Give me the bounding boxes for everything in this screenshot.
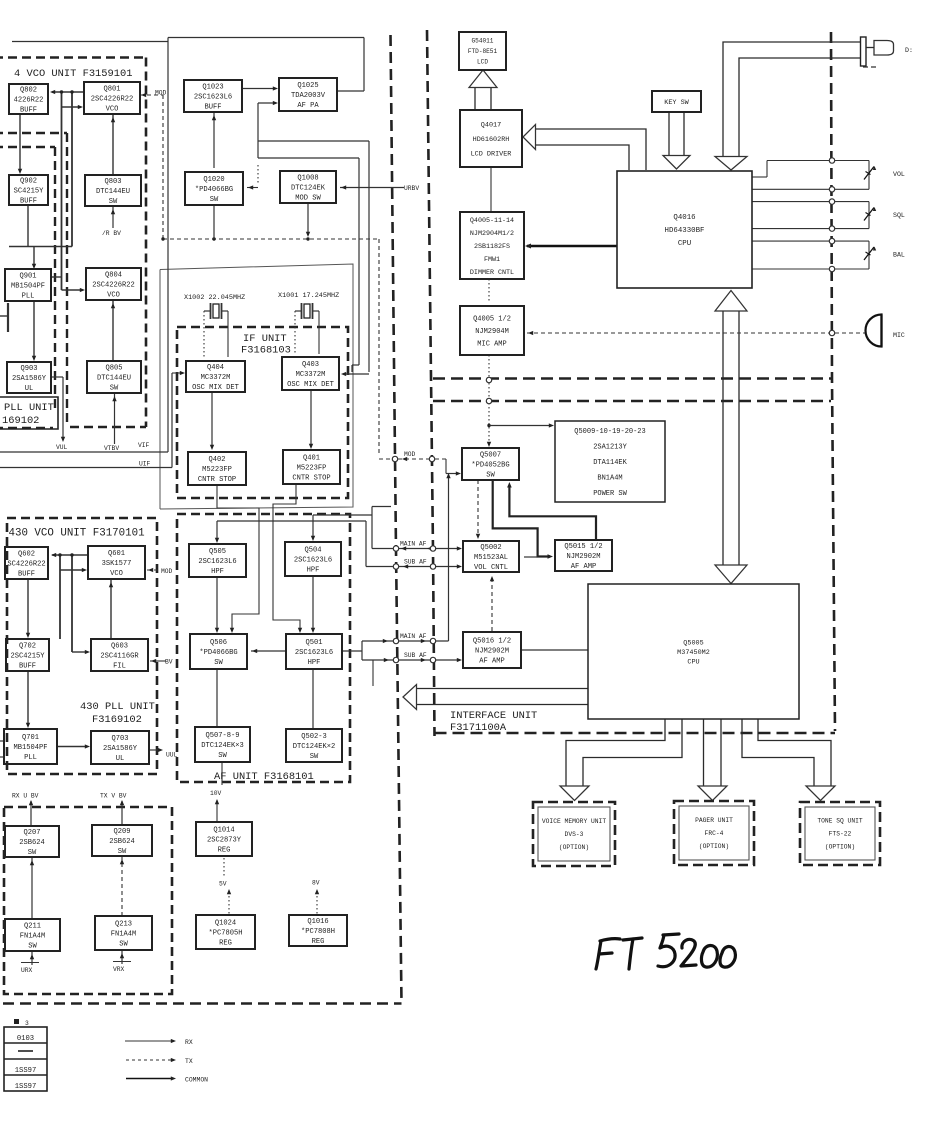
svg-text:2SC2873Y: 2SC2873Y: [207, 836, 242, 844]
svg-text:2SC4116GR: 2SC4116GR: [100, 652, 139, 660]
svg-text:FTD-8E51: FTD-8E51: [468, 48, 498, 55]
svg-text:Q802: Q802: [20, 86, 37, 94]
svg-text:Q504: Q504: [304, 546, 321, 554]
svg-text:FMW1: FMW1: [484, 256, 500, 264]
svg-text:VRX: VRX: [113, 966, 125, 973]
svg-text:Q5005: Q5005: [683, 639, 703, 647]
svg-text:Q505: Q505: [209, 548, 226, 556]
svg-text:2SB624: 2SB624: [19, 839, 45, 847]
svg-text:Q502-3: Q502-3: [301, 733, 327, 741]
svg-text:MOD: MOD: [155, 90, 167, 97]
svg-text:*PD4066BG: *PD4066BG: [195, 186, 233, 194]
svg-text:VCO: VCO: [107, 292, 120, 300]
svg-text:Q901: Q901: [19, 272, 36, 280]
svg-text:F3169102: F3169102: [92, 714, 142, 726]
svg-text:VOL CNTL: VOL CNTL: [474, 564, 508, 572]
svg-text:MC3372M: MC3372M: [296, 371, 326, 379]
svg-text:SC4226R22: SC4226R22: [7, 560, 45, 568]
svg-text:FRC-4: FRC-4: [705, 830, 724, 837]
svg-text:Q1020: Q1020: [203, 176, 224, 184]
svg-text:URBV: URBV: [404, 185, 419, 192]
svg-text:3SK1577: 3SK1577: [102, 560, 132, 568]
svg-text:Q507-8-9: Q507-8-9: [205, 732, 239, 740]
svg-text:UUL: UUL: [166, 752, 178, 759]
svg-text:KEY SW: KEY SW: [664, 99, 689, 107]
svg-text:SW: SW: [310, 753, 319, 761]
svg-text:D:: D:: [905, 47, 913, 54]
svg-text:Q5007: Q5007: [480, 451, 501, 459]
svg-text:M37450M2: M37450M2: [677, 649, 710, 657]
svg-text:RX: RX: [185, 1039, 193, 1046]
svg-text:BN1A4M: BN1A4M: [597, 474, 622, 482]
svg-text:2SC4226R22: 2SC4226R22: [92, 281, 135, 289]
svg-text:4 VCO UNIT F3159101: 4 VCO UNIT F3159101: [14, 68, 132, 80]
svg-text:UL: UL: [116, 755, 125, 763]
svg-text:SC4215Y: SC4215Y: [14, 187, 45, 195]
svg-text:SW: SW: [110, 385, 119, 393]
svg-text:OSC MIX DET: OSC MIX DET: [287, 381, 334, 389]
svg-text:DVS-3: DVS-3: [565, 831, 584, 838]
svg-text:DTC144EU: DTC144EU: [97, 374, 131, 382]
svg-text:Q903: Q903: [20, 365, 37, 373]
svg-text:FN1A4M: FN1A4M: [111, 930, 137, 938]
svg-text:(OPTION): (OPTION): [559, 844, 589, 851]
svg-text:FIL: FIL: [113, 663, 126, 671]
svg-text:2SC1623L6: 2SC1623L6: [294, 556, 332, 564]
svg-text:MIC: MIC: [893, 332, 905, 339]
svg-text:BUFF: BUFF: [18, 571, 35, 579]
svg-text:NJM2902M: NJM2902M: [566, 553, 600, 561]
svg-text:DTC124EK×2: DTC124EK×2: [293, 743, 336, 751]
svg-text:169102: 169102: [2, 415, 39, 427]
svg-text:2SC4226R22: 2SC4226R22: [91, 95, 134, 103]
svg-text:430 PLL UNIT: 430 PLL UNIT: [80, 701, 155, 713]
svg-text:Q1024: Q1024: [215, 919, 236, 927]
svg-text:*PD4066BG: *PD4066BG: [199, 649, 237, 657]
svg-text:Q601: Q601: [108, 550, 125, 558]
svg-text:*PC7808H: *PC7808H: [301, 928, 335, 936]
svg-text:(OPTION): (OPTION): [825, 844, 855, 851]
svg-text:G54011: G54011: [472, 38, 494, 45]
svg-text:DTA114EK: DTA114EK: [593, 459, 627, 467]
svg-text:M5223FP: M5223FP: [297, 464, 327, 472]
svg-text:Q4017: Q4017: [481, 121, 501, 129]
svg-text:Q207: Q207: [23, 829, 40, 837]
svg-text:3: 3: [25, 1020, 29, 1027]
svg-text:MOD SW: MOD SW: [295, 195, 321, 203]
svg-text:Q801: Q801: [103, 85, 120, 93]
svg-text:SUB AF: SUB AF: [404, 559, 427, 566]
svg-text:*PD4052BG: *PD4052BG: [471, 461, 509, 469]
svg-text:Q701: Q701: [22, 734, 39, 742]
svg-text:Q401: Q401: [303, 454, 320, 462]
svg-text:Q5015 1/2: Q5015 1/2: [564, 543, 602, 551]
svg-text:Q403: Q403: [302, 361, 319, 369]
svg-text:OSC MIX DET: OSC MIX DET: [192, 384, 239, 392]
svg-text:Q4005-11-14: Q4005-11-14: [470, 217, 514, 225]
svg-text:HPF: HPF: [211, 568, 224, 576]
svg-text:Q1008: Q1008: [297, 174, 318, 182]
svg-text:NJM2904M: NJM2904M: [475, 328, 509, 336]
svg-text:SQL: SQL: [893, 212, 905, 219]
svg-text:HPF: HPF: [307, 567, 320, 575]
svg-text:BV: BV: [165, 659, 173, 666]
svg-text:AF PA: AF PA: [297, 102, 319, 110]
svg-text:8V: 8V: [312, 880, 320, 887]
svg-text:Q5016 1/2: Q5016 1/2: [473, 637, 511, 645]
svg-text:IF UNIT: IF UNIT: [243, 333, 287, 345]
svg-text:Q803: Q803: [104, 178, 121, 186]
svg-text:TX V BV: TX V BV: [100, 793, 127, 800]
svg-text:VCO: VCO: [110, 570, 123, 578]
svg-text:SW: SW: [486, 472, 495, 480]
svg-text:PLL UNIT: PLL UNIT: [4, 402, 54, 414]
svg-text:VIF: VIF: [138, 442, 150, 449]
svg-text:VCO: VCO: [106, 106, 119, 114]
svg-text:CNTR STOP: CNTR STOP: [292, 475, 330, 483]
svg-text:SUB AF: SUB AF: [404, 652, 427, 659]
svg-text:CPU: CPU: [678, 240, 691, 248]
svg-text:SW: SW: [119, 941, 128, 949]
svg-text:5V: 5V: [219, 881, 227, 888]
svg-text:REG: REG: [312, 938, 325, 946]
svg-text:REG: REG: [218, 847, 231, 855]
svg-text:Q1016: Q1016: [307, 918, 328, 926]
svg-text:VOL: VOL: [893, 171, 905, 178]
svg-text:MOD: MOD: [161, 568, 173, 575]
svg-text:MAIN AF: MAIN AF: [400, 633, 427, 640]
svg-text:Q1025: Q1025: [297, 82, 318, 90]
svg-text:M51523AL: M51523AL: [474, 554, 508, 562]
svg-text:Q902: Q902: [20, 177, 37, 185]
svg-text:PAGER UNIT: PAGER UNIT: [695, 817, 733, 824]
svg-text:2SB1182FS: 2SB1182FS: [474, 243, 510, 251]
svg-text:Q703: Q703: [111, 735, 128, 743]
svg-text:CPU: CPU: [687, 658, 699, 666]
svg-text:POWER SW: POWER SW: [593, 490, 627, 498]
svg-text:4226R22: 4226R22: [14, 96, 44, 104]
svg-text:BUFF: BUFF: [20, 198, 37, 206]
svg-text:VUL: VUL: [56, 444, 68, 451]
svg-text:MAIN AF: MAIN AF: [400, 541, 427, 548]
svg-text:0103: 0103: [17, 1035, 34, 1043]
svg-text:430 VCO UNIT F3170101: 430 VCO UNIT F3170101: [9, 528, 145, 540]
svg-text:Q702: Q702: [19, 642, 36, 650]
svg-text:SW: SW: [28, 849, 37, 857]
svg-text:SW: SW: [118, 848, 127, 856]
svg-text:SW: SW: [214, 659, 223, 667]
svg-text:X1001 17.245MHZ: X1001 17.245MHZ: [278, 292, 339, 300]
svg-text:M5223FP: M5223FP: [202, 466, 232, 474]
svg-text:URX: URX: [21, 967, 33, 974]
svg-text:DIMMER CNTL: DIMMER CNTL: [470, 269, 514, 277]
svg-text:FN1A4M: FN1A4M: [20, 932, 46, 940]
svg-text:TDA2003V: TDA2003V: [291, 92, 326, 100]
svg-text:F3171100A: F3171100A: [450, 722, 507, 734]
svg-text:Q602: Q602: [18, 550, 35, 558]
svg-text:HPF: HPF: [308, 659, 321, 667]
svg-text:COMMON: COMMON: [185, 1077, 208, 1084]
svg-text:NJM2904M1/2: NJM2904M1/2: [470, 230, 514, 238]
svg-text:MB1504PF: MB1504PF: [11, 282, 45, 290]
svg-text:2SC1623L6: 2SC1623L6: [194, 93, 232, 101]
svg-text:AF AMP: AF AMP: [479, 658, 505, 666]
svg-text:Q1023: Q1023: [202, 83, 223, 91]
svg-text:MOD: MOD: [404, 451, 416, 458]
svg-text:TX: TX: [185, 1058, 193, 1065]
svg-text:2SC1623L6: 2SC1623L6: [295, 649, 333, 657]
svg-text:AF UNIT F3168101: AF UNIT F3168101: [214, 771, 314, 783]
svg-text:1SS97: 1SS97: [15, 1067, 37, 1075]
svg-text:Q501: Q501: [305, 639, 322, 647]
svg-text:NJM2902M: NJM2902M: [475, 647, 509, 655]
svg-text:2SC4215Y: 2SC4215Y: [10, 652, 45, 660]
svg-text:VTBV: VTBV: [104, 445, 119, 452]
svg-text:BUFF: BUFF: [20, 107, 37, 115]
svg-text:Q804: Q804: [105, 271, 122, 279]
svg-text:2SC1623L6: 2SC1623L6: [198, 558, 236, 566]
svg-text:2SA1586Y: 2SA1586Y: [12, 375, 47, 383]
svg-text:BUFF: BUFF: [204, 104, 221, 112]
svg-text:Q4005 1/2: Q4005 1/2: [473, 315, 511, 323]
svg-text:Q603: Q603: [111, 642, 128, 650]
svg-text:FTS-22: FTS-22: [829, 831, 852, 838]
svg-text:SW: SW: [28, 943, 37, 951]
svg-text:HD64330BF: HD64330BF: [665, 227, 705, 235]
svg-text:Q404: Q404: [207, 364, 224, 372]
svg-text:Q402: Q402: [208, 456, 225, 464]
svg-text:Q1014: Q1014: [213, 826, 234, 834]
svg-text:Q5002: Q5002: [480, 544, 501, 552]
svg-text:Q4016: Q4016: [673, 214, 695, 222]
svg-text:SW: SW: [109, 198, 118, 206]
svg-text:/R BV: /R BV: [102, 230, 121, 237]
svg-text:DTC124EK: DTC124EK: [291, 184, 326, 192]
svg-text:2SA1586Y: 2SA1586Y: [103, 745, 138, 753]
svg-text:(OPTION): (OPTION): [699, 843, 729, 850]
svg-text:MB1504PF: MB1504PF: [13, 744, 47, 752]
svg-text:Q209: Q209: [113, 828, 130, 836]
svg-text:Q805: Q805: [105, 364, 122, 372]
svg-text:BAL: BAL: [893, 252, 905, 259]
svg-text:VOICE MEMORY UNIT: VOICE MEMORY UNIT: [542, 818, 606, 825]
svg-text:DTC124EK×3: DTC124EK×3: [201, 742, 244, 750]
svg-text:Q213: Q213: [115, 920, 132, 928]
svg-text:1SS97: 1SS97: [15, 1083, 37, 1091]
svg-text:RX U BV: RX U BV: [12, 793, 39, 800]
svg-text:INTERFACE UNIT: INTERFACE UNIT: [450, 710, 537, 722]
svg-text:HD61602RH: HD61602RH: [473, 136, 510, 144]
svg-text:MIC AMP: MIC AMP: [477, 340, 506, 348]
svg-text:Q211: Q211: [24, 922, 41, 930]
svg-text:SW: SW: [218, 752, 227, 760]
svg-text:2SB624: 2SB624: [109, 838, 135, 846]
svg-text:REG: REG: [219, 940, 232, 948]
svg-text:AF AMP: AF AMP: [571, 563, 597, 571]
svg-text:SW: SW: [210, 196, 219, 204]
svg-text:DTC144EU: DTC144EU: [96, 188, 130, 196]
svg-text:BUFF: BUFF: [19, 663, 36, 671]
svg-text:CNTR STOP: CNTR STOP: [198, 476, 236, 484]
svg-text:LCD: LCD: [477, 59, 488, 66]
svg-text:PLL: PLL: [22, 293, 35, 301]
svg-text:PLL: PLL: [24, 754, 37, 762]
svg-text:UL: UL: [25, 385, 34, 393]
svg-text:10V: 10V: [210, 790, 222, 797]
svg-text:MC3372M: MC3372M: [201, 374, 231, 382]
svg-text:UIF: UIF: [139, 461, 151, 468]
svg-text:*PC7805H: *PC7805H: [208, 929, 242, 937]
svg-text:2SA1213Y: 2SA1213Y: [593, 443, 627, 451]
svg-text:X1002 22.045MHZ: X1002 22.045MHZ: [184, 294, 245, 302]
svg-text:Q506: Q506: [210, 639, 227, 647]
svg-text:TONE SQ UNIT: TONE SQ UNIT: [817, 818, 863, 825]
svg-text:LCD DRIVER: LCD DRIVER: [471, 150, 512, 158]
svg-text:Q5009-10-19-20-23: Q5009-10-19-20-23: [574, 428, 645, 436]
svg-text:F3168103: F3168103: [241, 345, 291, 357]
